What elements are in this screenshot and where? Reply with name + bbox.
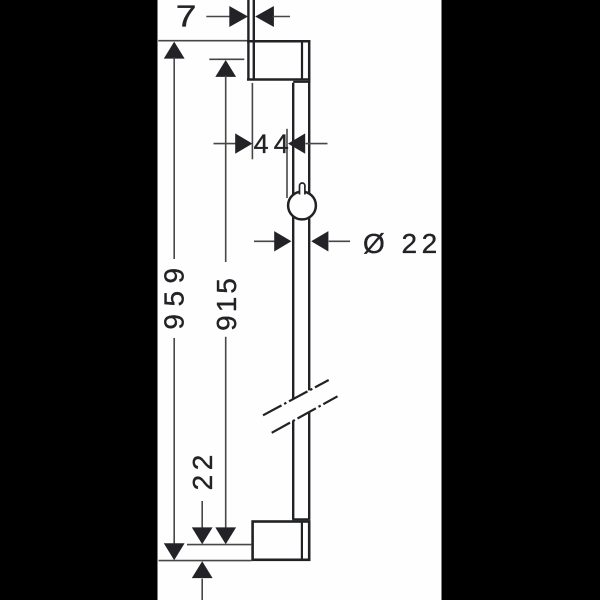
svg-text:7: 7 — [176, 0, 197, 34]
top bracket right edge — [308, 40, 311, 80]
top bracket inner right line — [301, 41, 303, 79]
dim 44 line left — [214, 143, 237, 145]
dim 915 top extension line — [209, 58, 244, 60]
break symbol lower dash-dot — [272, 396, 338, 433]
bottom extension line b — [159, 560, 252, 562]
rail right line upper — [308, 81, 310, 391]
dim 915 line upper — [225, 76, 227, 263]
dim diameter 22 arrow right — [311, 231, 328, 251]
svg-text:22: 22 — [187, 450, 218, 490]
top extension line — [158, 40, 247, 42]
dim 915 top arrow — [215, 60, 236, 77]
bottom bracket outline — [253, 522, 310, 560]
dim 7 line right — [273, 16, 290, 18]
slider knob circle — [288, 192, 316, 220]
dim 22 line lower — [201, 579, 203, 600]
bottom extension line a — [187, 544, 251, 546]
dim 7 arrow right — [255, 6, 274, 27]
break symbol upper dash-dot — [263, 380, 329, 415]
dim 44 right extension line — [286, 129, 288, 198]
rail left line upper — [292, 83, 294, 399]
bottom bracket inner line — [301, 522, 303, 560]
dim 7 line left — [206, 16, 232, 18]
svg-text:Ø 22: Ø 22 — [363, 228, 442, 259]
wall plate inner line — [253, 0, 255, 80]
svg-text:915: 915 — [211, 275, 242, 331]
dim 915 bottom arrow — [215, 527, 236, 544]
dim 22 top arrow — [192, 527, 213, 544]
dim 7 arrow left — [229, 6, 248, 27]
wall plate outer line — [247, 0, 249, 80]
dim 44 left extension line — [251, 83, 253, 159]
dim 44 arrow left — [235, 133, 252, 153]
dim 44 line right — [306, 143, 328, 145]
dim diameter 22 line right — [329, 240, 350, 242]
dim diameter 22 line left — [254, 240, 276, 242]
rail left line lower — [292, 421, 294, 519]
dim 959 top arrow — [164, 42, 185, 59]
svg-text:959: 959 — [159, 260, 190, 329]
top bracket top edge — [247, 40, 310, 43]
svg-text:44: 44 — [254, 129, 294, 159]
rail right line lower — [308, 412, 310, 520]
rail bottom cap — [292, 518, 310, 520]
dim diameter 22 arrow left — [274, 231, 291, 251]
dim 959 bottom arrow — [164, 543, 185, 560]
dim 22 bottom arrow — [192, 561, 213, 578]
top bracket bottom edge — [247, 78, 310, 81]
dim 959 line lower — [173, 338, 175, 545]
dim 22 line upper — [201, 501, 203, 529]
dim 44 arrow right — [288, 133, 305, 153]
rail top collar — [293, 81, 310, 83]
white drawing band — [158, 0, 442, 600]
slider knob pin — [300, 183, 305, 195]
dim 915 line lower — [225, 337, 227, 529]
dim 959 line upper — [173, 58, 175, 260]
